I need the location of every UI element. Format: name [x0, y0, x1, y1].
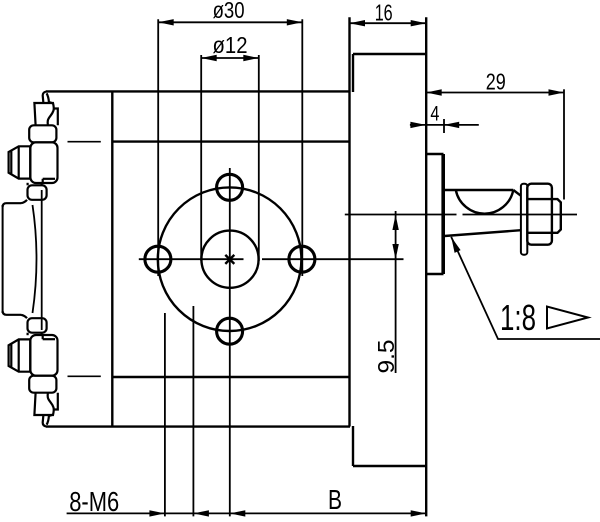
dimension 9.5 — [395, 211, 397, 373]
taper leader 1:8 — [451, 237, 600, 339]
washer — [521, 184, 527, 255]
side plug — [9, 146, 31, 178]
svg-text:1:8: 1:8 — [500, 297, 536, 338]
bolt hole top — [217, 174, 243, 200]
rear cover outline — [353, 17, 426, 516]
hex nut — [527, 184, 552, 245]
collar nut — [29, 125, 56, 142]
threaded shaft end stub — [552, 199, 561, 233]
port fitting assembly (top) — [3, 91, 101, 207]
center cross — [225, 255, 234, 264]
lower collar — [28, 185, 47, 200]
dimension 4 — [410, 119, 479, 133]
casting curve — [33, 205, 37, 313]
dimension 29 — [426, 89, 564, 199]
flange top edge — [3, 203, 21, 207]
tapered shaft with woodruff key seat — [445, 190, 522, 236]
horizontal centerline — [139, 258, 404, 260]
svg-text:9.5: 9.5 — [373, 340, 399, 374]
fitting body bulge — [30, 142, 57, 183]
body corner fillet + rear tube sliver — [43, 91, 47, 103]
port fitting assembly (bottom, mirrored) — [3, 311, 101, 427]
dimension 8-M6 extension lines — [67, 306, 427, 516]
svg-text:ø12: ø12 — [213, 32, 248, 58]
bolt hole left — [145, 246, 171, 272]
pilot circle — [201, 231, 258, 288]
taper symbol — [547, 307, 588, 329]
svg-text:B: B — [328, 484, 342, 515]
dimension Ø30 — [158, 19, 302, 276]
shaft centerline — [345, 214, 577, 216]
dimension B — [230, 510, 246, 516]
left flange edge — [2, 205, 4, 313]
trumpet flare to flange — [21, 200, 27, 203]
svg-text:4: 4 — [430, 103, 439, 126]
bolt circle — [158, 187, 302, 331]
bolt hole right — [289, 246, 315, 272]
svg-text:ø30: ø30 — [213, 0, 245, 23]
svg-text:29: 29 — [486, 69, 506, 95]
dimension Ø12 — [201, 55, 259, 261]
rear tube neck — [49, 102, 58, 125]
svg-text:8-M6: 8-M6 — [69, 486, 119, 517]
front tube neck — [34, 103, 53, 125]
dimension 16 — [350, 22, 427, 24]
pump body front-view rectangle — [46, 17, 350, 426]
vertical centerline — [229, 168, 231, 516]
port centerline dash — [68, 141, 101, 143]
svg-text:16: 16 — [375, 0, 393, 25]
port boss edge — [41, 190, 43, 330]
mounting flange plate — [426, 154, 443, 274]
bolt hole bottom — [217, 318, 243, 344]
